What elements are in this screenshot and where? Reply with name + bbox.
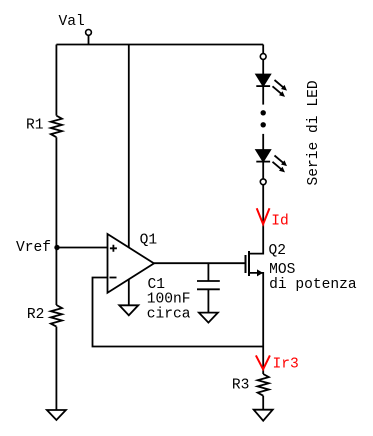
svg-text:Id: Id [271,213,289,229]
svg-text:circa: circa [147,307,191,323]
svg-text:Q2: Q2 [269,243,287,259]
svg-text:MOS: MOS [269,262,296,278]
svg-text:di potenza: di potenza [269,277,357,293]
svg-text:100nF: 100nF [147,292,191,308]
svg-text:R3: R3 [232,377,250,393]
svg-text:C1: C1 [148,277,166,293]
svg-text:Val: Val [59,14,85,30]
svg-text:Q1: Q1 [140,233,158,249]
svg-text:Ir3: Ir3 [273,357,299,373]
svg-text:R2: R2 [27,307,45,323]
svg-text:R1: R1 [26,117,44,133]
svg-text:Serie di LED: Serie di LED [306,80,322,185]
svg-text:Vref: Vref [16,240,51,256]
